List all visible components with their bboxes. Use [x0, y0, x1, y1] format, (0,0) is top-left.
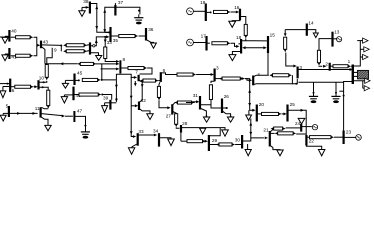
Q27 collector elbow — [173, 103, 178, 105]
port pin — [364, 86, 369, 91]
wire elbow to Q35 — [97, 29, 108, 32]
ground — [45, 125, 51, 130]
Q27 emitter down — [173, 112, 176, 114]
resistor R17 — [212, 42, 228, 45]
Q10 collector — [39, 81, 46, 82]
junction — [226, 107, 228, 109]
ground flag — [313, 33, 318, 38]
arrow into node 18 — [236, 45, 239, 48]
node 42 bar — [89, 42, 91, 54]
node 29 — [208, 135, 210, 151]
arrow into node 3a — [211, 73, 214, 76]
resistor R21-22 — [278, 132, 293, 135]
port pin — [363, 54, 368, 59]
wire node15 down — [267, 53, 269, 75]
wire left stub to node 40 — [0, 36, 9, 38]
arrow into Q16 base — [236, 11, 239, 14]
node24 right wire — [302, 126, 312, 128]
earth ground — [138, 14, 140, 17]
wire R30 to node30 — [235, 144, 241, 146]
wire to Q4 base — [245, 79, 249, 81]
svg-text:27: 27 — [166, 113, 172, 118]
bubble — [93, 45, 95, 47]
transistor Q33 — [137, 133, 139, 146]
vertical resistor V16 — [244, 24, 247, 35]
source P6 — [312, 125, 317, 130]
node 33 junction — [104, 36, 106, 38]
wire V27 to Q27 base — [159, 100, 168, 108]
junction — [42, 86, 44, 88]
Q32 emitter — [140, 109, 150, 114]
wire bar13 left down — [319, 39, 332, 51]
transistor Q7 — [138, 75, 140, 81]
arrow right — [301, 109, 304, 112]
junction — [206, 115, 208, 117]
ground — [62, 83, 68, 88]
wire y91 tick — [339, 90, 343, 92]
Q21 emitter to ground — [271, 146, 280, 150]
svg-text:17: 17 — [201, 34, 207, 39]
Q11 to Q47 wire — [41, 114, 62, 116]
arrow down — [95, 26, 98, 29]
wire R45 to hub elbow — [101, 74, 121, 80]
node junction — [60, 45, 62, 47]
ground stem — [63, 95, 65, 97]
V28 to node28 — [176, 127, 179, 128]
node 40b — [72, 87, 74, 101]
svg-text:26: 26 — [224, 94, 230, 99]
arrow into Q10 base — [34, 85, 37, 88]
svg-text:9: 9 — [54, 48, 57, 53]
transistor Q10 — [37, 80, 39, 89]
arrow down — [134, 83, 137, 86]
vertical resistor V13b — [317, 50, 320, 62]
port pin — [365, 78, 370, 83]
arrow right — [263, 46, 266, 49]
node40b left to ground — [64, 94, 72, 96]
junction — [343, 95, 345, 97]
port pin — [363, 38, 368, 43]
arrow up — [210, 84, 213, 87]
svg-text:33: 33 — [107, 40, 113, 45]
resistor R7-6 — [143, 79, 156, 82]
Q4 emitter bus — [254, 79, 297, 85]
arrow right — [33, 112, 36, 115]
arrow into node1 — [350, 68, 353, 71]
Q45 base wire — [65, 79, 73, 81]
Q11 base wire — [10, 112, 38, 114]
resistor R40 — [79, 93, 98, 96]
junction — [6, 83, 8, 85]
resistor R8in — [80, 62, 93, 65]
hub bottom to Q7 base — [120, 74, 134, 77]
wire to node2 — [319, 65, 322, 67]
node6 to ground — [3, 86, 9, 88]
ground — [0, 91, 6, 98]
Q36 emitter — [147, 40, 154, 43]
wire Q43 collector bus to node 9 — [42, 44, 62, 47]
wire R35 to Q36 base — [139, 35, 146, 37]
wire R21-22 to node22 — [296, 133, 306, 135]
wire R40 to node39 — [101, 95, 111, 100]
resistor R27-31 — [178, 101, 192, 104]
wire R7-6 to Q6 — [158, 80, 160, 82]
Q45 right tick — [76, 79, 79, 81]
svg-text:23: 23 — [346, 130, 352, 135]
fan line 1 — [105, 59, 116, 62]
transistor Q21 — [269, 131, 271, 147]
arrow into Q32 base — [135, 104, 138, 107]
node22 to R22-23 — [307, 136, 309, 138]
ground — [203, 117, 209, 122]
Q31 base wire — [186, 101, 197, 103]
resistor R20-25 — [262, 112, 279, 115]
resistor R2-1 — [333, 65, 348, 68]
svg-text:6: 6 — [163, 68, 166, 73]
svg-text:16: 16 — [234, 5, 240, 10]
svg-text:40: 40 — [11, 29, 17, 34]
wire down to earth — [335, 82, 337, 96]
wire Q43 base stub — [36, 44, 39, 46]
Q16 emitter chain — [241, 17, 246, 25]
ground — [229, 55, 236, 61]
transistor Q14 — [306, 24, 308, 36]
vertical resistor V33 — [104, 47, 107, 59]
Q43 emitter down wire — [42, 47, 45, 64]
wire to Q47 — [65, 115, 73, 117]
wire R2-1 to node1 — [351, 65, 354, 67]
node 24 — [300, 124, 302, 132]
junction — [295, 83, 297, 85]
ground — [200, 128, 206, 134]
transistor Q45 — [73, 74, 75, 86]
node 23 — [343, 131, 345, 145]
junction — [43, 81, 45, 83]
wire node33 to V33 — [104, 37, 106, 47]
source V13 — [337, 37, 342, 42]
ground flag — [298, 118, 305, 124]
node40b to R40 — [74, 94, 79, 96]
wire Q37 to vertical — [105, 7, 115, 32]
wire to load box — [354, 75, 358, 77]
svg-text:30: 30 — [235, 138, 241, 143]
svg-text:45: 45 — [77, 71, 83, 76]
svg-text:32: 32 — [141, 98, 147, 103]
ground stem — [2, 113, 4, 115]
transistor Q37 — [114, 5, 116, 16]
arrow into Q4 base — [249, 79, 252, 82]
vertical resistor V1 — [45, 65, 48, 78]
node 13 — [331, 32, 333, 47]
resistor R2 — [16, 54, 31, 57]
node 25 — [286, 105, 288, 122]
transistor Q43 — [40, 41, 42, 49]
ground — [151, 43, 157, 48]
transistor Q36 — [145, 28, 147, 41]
arrow into Q27 base — [167, 106, 170, 109]
node 5 — [8, 106, 10, 117]
svg-text:6: 6 — [12, 88, 15, 93]
arrow down — [130, 96, 133, 99]
node 22 — [305, 135, 307, 146]
Q26 crossbar tick — [214, 107, 221, 109]
wire into Q35 top — [105, 31, 110, 33]
node 15 — [267, 36, 269, 53]
resistor R21-24 — [274, 127, 283, 130]
junction — [101, 79, 103, 81]
vertical to Q21 — [251, 119, 264, 138]
wire Q20 to R20 — [258, 113, 262, 115]
resistor R6-3 — [177, 73, 193, 76]
wire R6-3 to node3a — [196, 74, 211, 76]
wire node41 to ground — [5, 53, 9, 55]
arrow down — [141, 84, 144, 87]
Q37 stub up — [114, 3, 116, 5]
arrow down — [115, 85, 118, 88]
node 19 — [205, 4, 207, 22]
vertical resistor V27 — [157, 86, 160, 97]
arrow into Q35 base — [106, 35, 109, 38]
node23 to source P2 — [344, 136, 355, 138]
wire node40 to ground — [5, 35, 9, 37]
resistor R22-23 — [310, 136, 331, 139]
ground — [61, 97, 67, 103]
wire R27-31 to Q31 — [186, 102, 195, 104]
node 6 — [9, 79, 11, 93]
wire R9a to bar42 — [86, 44, 89, 46]
arrow into node 2 — [323, 65, 326, 68]
bar19 tick — [207, 11, 210, 13]
arrow into node 25 — [283, 113, 286, 116]
svg-text:2: 2 — [325, 61, 328, 66]
arrow into hub — [116, 60, 119, 63]
junction — [138, 10, 140, 12]
svg-text:34: 34 — [153, 129, 159, 134]
wire ground to Q38 base — [82, 6, 89, 8]
Q11 emitter — [41, 117, 48, 125]
resistor R1 — [16, 36, 31, 39]
wire bubble up to Q35 base — [95, 37, 107, 46]
ground — [147, 114, 153, 120]
wire V31 to node31 — [201, 100, 211, 105]
wire V16 to node 15 — [246, 40, 267, 42]
ground stem — [64, 80, 66, 83]
node28 wire right — [182, 127, 220, 129]
junction — [335, 92, 337, 94]
Q4 collector — [254, 75, 269, 76]
earth ground — [331, 95, 340, 97]
Q33 collector wire — [139, 134, 154, 136]
node 41 — [8, 48, 10, 59]
arrow into Q43 base — [37, 44, 40, 47]
svg-text:3: 3 — [216, 66, 219, 71]
ground — [222, 130, 229, 136]
ground — [79, 11, 85, 17]
wire node41 to R2 — [11, 55, 16, 57]
ground stem — [104, 103, 106, 106]
transistor Q16 — [239, 9, 241, 20]
Q16 to ground elbow — [232, 20, 240, 21]
node 3a — [214, 69, 216, 82]
ground — [229, 21, 236, 27]
arrow into hub — [116, 68, 119, 71]
arrow down — [104, 40, 107, 43]
Q33 emitter to ground — [132, 144, 137, 148]
ground stem — [202, 127, 204, 130]
left stub — [0, 83, 10, 85]
svg-text:29: 29 — [212, 138, 218, 143]
arrow down — [103, 29, 106, 32]
svg-text:18: 18 — [236, 35, 242, 40]
resistor R35 — [119, 35, 135, 38]
wire bar13 to source — [333, 38, 336, 40]
wire node18 to node15 — [244, 47, 264, 49]
wire V16 to node 18 — [242, 39, 246, 41]
arrow into Q7 base — [134, 76, 137, 79]
wire R9b to bar42 — [86, 50, 89, 53]
short emitter stub — [134, 81, 136, 84]
node3a bottom to V31 — [211, 81, 215, 83]
node22 bottom to ground — [306, 146, 321, 150]
ground — [227, 117, 233, 122]
node 2 — [329, 63, 331, 71]
node 47 — [73, 111, 75, 122]
svg-text:39: 39 — [103, 95, 109, 100]
junction — [220, 78, 222, 80]
port pin — [364, 47, 369, 52]
wire bar42 to bubble — [91, 45, 93, 47]
node39 ground wire — [105, 102, 117, 104]
svg-text:31: 31 — [193, 93, 199, 98]
Q42 emitter to ground — [91, 53, 99, 56]
port T2 lead — [360, 48, 364, 50]
junction — [108, 31, 110, 33]
node 40 — [8, 30, 10, 42]
wire down to earth — [313, 82, 315, 96]
resistor R8out — [128, 67, 144, 70]
wire Q21 to R21-22 — [271, 132, 275, 134]
wire to load box — [354, 71, 358, 73]
Q26 crossbar tick right — [223, 107, 228, 109]
arrow into Q47 — [62, 115, 65, 118]
resistor R45 — [82, 78, 97, 81]
vertical resistor V2 — [47, 90, 50, 105]
junction — [84, 125, 86, 127]
svg-text:35: 35 — [113, 38, 119, 43]
earth ground — [81, 131, 90, 133]
node28 down to R29 — [180, 133, 182, 142]
transistor Q26 — [221, 99, 223, 114]
node18 bottom to ground — [232, 52, 241, 55]
earth ground — [309, 95, 318, 97]
arrow down — [248, 103, 251, 106]
junction — [230, 116, 232, 118]
wire node40 to R1 — [11, 36, 16, 38]
node29 to R30 — [210, 144, 219, 146]
svg-text:8: 8 — [123, 57, 126, 62]
node 1 — [352, 65, 354, 85]
transistor Q4 — [252, 76, 254, 86]
wire R8in to hub — [96, 63, 117, 65]
svg-text:15: 15 — [270, 33, 276, 38]
Q21 collector elbow — [271, 129, 273, 132]
Q6 collector elbow — [162, 73, 177, 75]
bar17 tick — [207, 42, 210, 44]
vertical x116 down — [115, 80, 117, 102]
R8in branch down — [101, 64, 103, 80]
long vertical to Q32/Q33 — [130, 77, 132, 134]
wire to R8in — [45, 63, 78, 65]
transistor Q31 — [199, 96, 201, 110]
source P2 — [356, 135, 362, 141]
wire Q35 to R35 — [111, 35, 119, 37]
ground stem — [2, 87, 4, 91]
svg-text:43: 43 — [43, 39, 49, 44]
node1 bottom elbow — [344, 82, 353, 131]
wire R20-25 to node25 — [282, 113, 284, 115]
arrow into Q31 base — [196, 100, 199, 103]
Q47 right elbow down — [75, 116, 85, 131]
svg-text:37: 37 — [118, 0, 124, 5]
transistor Q11 — [39, 107, 41, 117]
ground stem — [248, 110, 250, 115]
Q7 emitter down — [139, 81, 142, 102]
Q6 emitter down — [159, 82, 160, 86]
ground — [0, 115, 6, 121]
node25 right wire — [288, 110, 306, 135]
ground — [168, 139, 175, 146]
wire V17 to bar17 — [193, 42, 205, 44]
resistor R30 — [219, 143, 232, 146]
arrow down — [249, 132, 252, 135]
source V19 — [187, 8, 194, 15]
wire R17 to node18 — [231, 43, 237, 46]
arrow into hub — [116, 62, 119, 65]
svg-text:13: 13 — [334, 30, 340, 35]
svg-text:20: 20 — [259, 102, 265, 107]
ground — [246, 115, 252, 120]
arrow into node 34 — [154, 134, 157, 137]
node3a right to R3a — [215, 78, 222, 80]
svg-text:21: 21 — [263, 128, 269, 133]
wire V31 down — [211, 105, 214, 108]
Q38 collector wire down — [91, 4, 97, 30]
node 28 — [180, 125, 182, 133]
port bus lower — [354, 81, 363, 88]
V2 to Q11 collector — [42, 107, 49, 108]
wire node2 to R22 — [331, 65, 334, 67]
node 3 — [297, 67, 299, 79]
resistor R29 — [187, 140, 203, 143]
wire R21-24 to node24 — [286, 127, 301, 129]
arrow left — [242, 46, 245, 49]
transistor Q20 — [256, 105, 258, 122]
ground — [102, 106, 108, 113]
svg-text:38: 38 — [83, 0, 89, 4]
svg-text:5: 5 — [6, 103, 9, 108]
wire V19 to bar19 — [193, 10, 205, 12]
transistor Q6 — [160, 72, 162, 82]
wire R15 right down — [291, 75, 293, 84]
svg-text:47: 47 — [77, 109, 83, 114]
ground — [4, 36, 6, 37]
ground stem — [81, 7, 83, 10]
svg-text:11: 11 — [35, 106, 40, 111]
node 34 — [158, 133, 160, 146]
transistor Q32 — [138, 102, 140, 111]
arrow into Q20 base — [252, 109, 255, 112]
arrow up — [103, 9, 106, 12]
